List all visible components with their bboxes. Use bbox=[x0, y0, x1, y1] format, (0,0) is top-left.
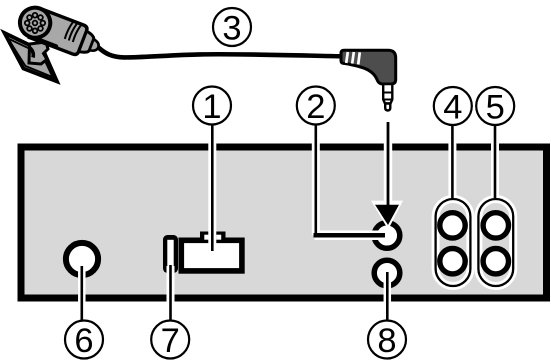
slot connector (7) bbox=[163, 235, 178, 273]
callout 7 bbox=[151, 321, 189, 360]
aux jack (8) bbox=[374, 260, 400, 286]
svg-text:8: 8 bbox=[377, 322, 396, 360]
wiring harness connector (1) bbox=[181, 232, 242, 271]
microphone cable bbox=[99, 48, 342, 58]
antenna jack (6) bbox=[66, 243, 98, 275]
leader line 5 bbox=[491, 124, 499, 199]
3.5mm right-angle plug body bbox=[341, 50, 396, 84]
callout 1 bbox=[193, 87, 231, 126]
callout 5 bbox=[476, 87, 514, 126]
leader line 1 bbox=[208, 124, 216, 251]
arrow from plug to jack 2 bbox=[371, 122, 403, 230]
mic body ridges bbox=[65, 22, 73, 40]
callout 4 bbox=[434, 87, 472, 126]
leader line 6 bbox=[78, 266, 86, 321]
callout 3 bbox=[213, 8, 251, 47]
mic body underside shadow bbox=[34, 38, 55, 46]
mic input jack (2) bbox=[374, 223, 400, 249]
callout 8 bbox=[368, 321, 406, 360]
microphone face grille bbox=[16, 3, 55, 42]
RCA jacks in pill 5 bbox=[480, 210, 511, 277]
svg-text:1: 1 bbox=[202, 88, 221, 126]
svg-text:6: 6 bbox=[74, 322, 93, 360]
RCA pill (5) bbox=[478, 199, 513, 286]
microphone body bbox=[29, 9, 103, 62]
leader line 8 bbox=[384, 272, 392, 321]
3.5mm plug shaft bbox=[383, 84, 393, 111]
plug strain relief stripes bbox=[346, 52, 348, 63]
RCA jacks in pill 4 bbox=[437, 210, 468, 277]
leader line 7 bbox=[167, 265, 175, 321]
microphone hinge bracket bbox=[29, 42, 48, 64]
leader line 2 bbox=[314, 124, 386, 235]
svg-text:5: 5 bbox=[486, 88, 505, 126]
svg-text:4: 4 bbox=[443, 88, 462, 126]
callout 2 bbox=[297, 87, 335, 126]
svg-text:7: 7 bbox=[161, 322, 180, 360]
svg-text:2: 2 bbox=[306, 88, 325, 126]
microphone clip plate bbox=[5, 33, 58, 82]
RCA pill (4) bbox=[436, 199, 471, 286]
callout 6 bbox=[65, 321, 103, 360]
leader line 4 bbox=[448, 124, 456, 199]
svg-text:3: 3 bbox=[222, 9, 241, 47]
rear panel bbox=[21, 147, 547, 298]
